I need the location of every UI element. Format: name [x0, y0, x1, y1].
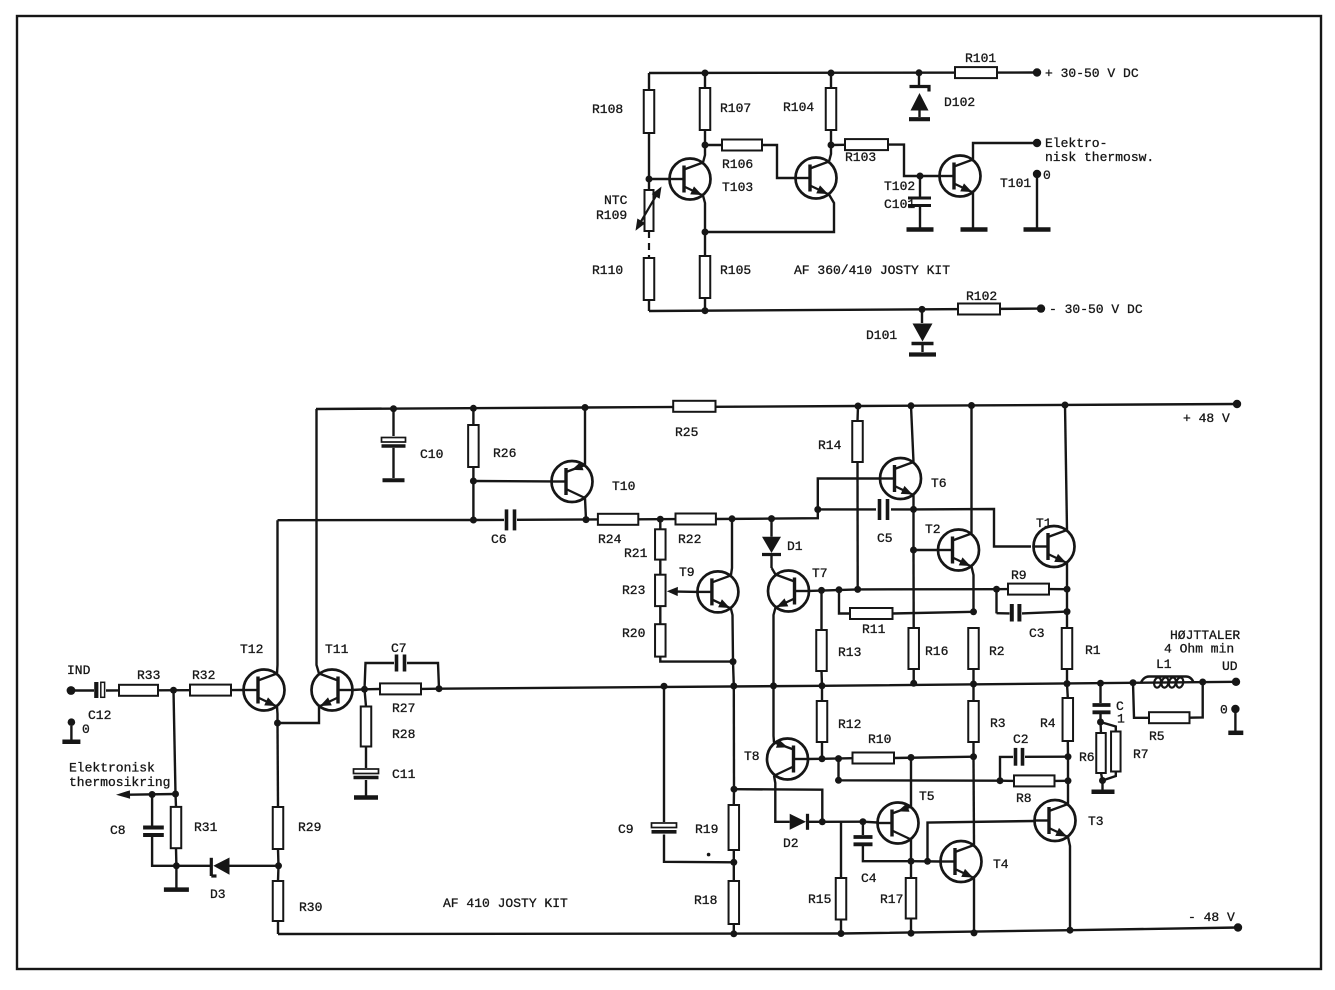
resistor R110: [592, 258, 654, 311]
svg-text:R1: R1: [1085, 643, 1101, 658]
svg-text:UD: UD: [1222, 659, 1238, 674]
resistor R31: [171, 794, 218, 866]
svg-text:R103: R103: [845, 150, 876, 165]
transistor T103: [669, 159, 753, 200]
svg-text:C11: C11: [392, 767, 416, 782]
wire: T9 emitter node to mid line: [732, 662, 735, 686]
wire: T101 collector to thermoswitch terminal: [973, 143, 1037, 160]
svg-text:R7: R7: [1133, 747, 1149, 762]
transistor T2: [925, 522, 979, 571]
svg-text:R28: R28: [392, 727, 415, 742]
svg-text:T102: T102: [884, 179, 915, 194]
svg-text:0: 0: [1043, 168, 1051, 183]
zener diode D102: [910, 73, 976, 117]
wire: driver line to R9: [858, 586, 1000, 593]
svg-text:R32: R32: [192, 668, 215, 683]
resistor R1: [1062, 628, 1101, 684]
transistor T5: [877, 789, 935, 844]
wire: T5 collector down: [910, 840, 912, 862]
resistor R104: [783, 73, 836, 145]
svg-text:R110: R110: [592, 263, 623, 278]
svg-text:AF 410 JOSTY KIT: AF 410 JOSTY KIT: [443, 896, 568, 911]
svg-text:R5: R5: [1149, 729, 1165, 744]
resistor R13: [816, 590, 861, 685]
svg-text:R14: R14: [818, 438, 842, 453]
wire: R29 to D3 node: [277, 849, 280, 866]
wire: T11 collector column: [317, 409, 320, 674]
wire: T9 emitter down: [731, 609, 733, 662]
node: C5 right / T6 emitter / T2 base column: [910, 506, 917, 513]
wire: T2 collector to rail: [970, 406, 972, 534]
svg-text:R3: R3: [990, 716, 1006, 731]
wire: T5 emitter to R10 node: [910, 758, 912, 807]
svg-text:R13: R13: [838, 645, 861, 660]
wire: emitter junction to R29: [276, 723, 279, 807]
node: C4 top / T5 base: [859, 818, 866, 825]
resistor R18: [694, 862, 739, 934]
svg-text:C7: C7: [391, 641, 407, 656]
svg-text:Elektronisk: Elektronisk: [69, 761, 155, 776]
wire: T6 base L: [818, 479, 880, 510]
svg-text:R30: R30: [299, 900, 322, 915]
svg-text:R27: R27: [392, 701, 415, 716]
resistor R8: [1000, 775, 1068, 806]
svg-text:R109: R109: [596, 208, 627, 223]
svg-text:R9: R9: [1011, 568, 1027, 583]
svg-text:Elektro-: Elektro-: [1045, 136, 1107, 151]
svg-text:+ 30-50 V DC: + 30-50 V DC: [1045, 66, 1139, 81]
wire: T102 collector: [829, 145, 831, 162]
svg-text:T2: T2: [925, 522, 941, 537]
resistor R32: [190, 668, 231, 696]
wire: C3 left lead: [997, 612, 1010, 615]
bar under C10: [383, 478, 405, 482]
capacitor C6: [491, 509, 515, 547]
resistor R28: [361, 689, 416, 746]
svg-text:R12: R12: [838, 717, 861, 732]
wire: T12/T11 emitter junction: [274, 707, 319, 727]
svg-text:D101: D101: [866, 328, 897, 343]
resistor R29: [273, 807, 322, 849]
svg-text:T10: T10: [612, 479, 635, 494]
label AF 360/410 JOSTY KIT: [794, 263, 950, 278]
svg-text:C2: C2: [1013, 732, 1029, 747]
svg-text:NTC: NTC: [604, 193, 628, 208]
svg-text:R106: R106: [722, 157, 753, 172]
resistor R101: [955, 51, 997, 78]
terminal -30-50V DC: [1037, 302, 1143, 317]
wire: C12 to R33: [106, 689, 119, 691]
svg-text:T9: T9: [679, 565, 695, 580]
capacitor C8: [110, 795, 176, 866]
wire: emitter coupling T103-T102: [705, 195, 834, 233]
svg-text:D3: D3: [210, 887, 226, 902]
wire: 0 input to ground: [70, 726, 72, 740]
node: R4/C2/R6 label node: [1065, 750, 1095, 765]
diode D2: [783, 814, 822, 851]
wire: output mid line: [439, 679, 1236, 690]
resistor R103: [831, 139, 888, 165]
label AF 410 JOSTY KIT: [443, 896, 568, 911]
wire: T101 emitter: [972, 193, 974, 229]
wire: R4 column C2-R8 segment: [1065, 757, 1072, 785]
wire: T2 base lead: [914, 549, 939, 551]
node: T5/C4/R17/T4 base: [908, 858, 915, 865]
svg-text:R18: R18: [694, 893, 717, 908]
ground under R31: [164, 887, 189, 892]
ground under C101: [907, 227, 934, 232]
svg-text:R15: R15: [808, 892, 831, 907]
wire: T9 base arrow to R23 wiper: [667, 587, 698, 596]
svg-text:thermosikring: thermosikring: [69, 775, 170, 790]
node: T11 base / R27 / R28 / C7: [361, 686, 368, 693]
wire: T6 collector to rail: [911, 406, 914, 462]
resistor R5: [1133, 682, 1203, 744]
node: T103 emitter junction: [702, 229, 709, 236]
svg-text:C5: C5: [877, 531, 893, 546]
terminal 0 output: [1220, 703, 1240, 718]
resistor R106: [705, 140, 762, 173]
wire: T8 emitter to mid line: [772, 686, 775, 743]
wire: R26 node to T10 base: [473, 480, 551, 483]
svg-text:R10: R10: [868, 732, 891, 747]
svg-text:T3: T3: [1088, 814, 1104, 829]
capacitor C2: [1000, 732, 1068, 781]
inductor L1: [1141, 657, 1194, 688]
terminal -48V: [1188, 910, 1242, 932]
resistor R17: [880, 861, 916, 933]
svg-text:4 Ohm min: 4 Ohm min: [1164, 642, 1234, 657]
svg-text:L1: L1: [1156, 657, 1172, 672]
wire: mid line down to R19: [733, 686, 736, 789]
node: T9 emitter / R20: [730, 658, 737, 665]
diode D101: [866, 309, 934, 352]
trimpot R23: [622, 560, 666, 607]
svg-text:D102: D102: [944, 95, 975, 110]
svg-text:T6: T6: [931, 476, 947, 491]
svg-text:R20: R20: [622, 626, 645, 641]
wire: T12 collector line to C6: [278, 517, 505, 524]
capacitor C3: [1012, 604, 1067, 641]
transistor T102: [795, 158, 915, 199]
node: R104/R103/T102 collector: [828, 142, 835, 149]
wire: -48V rail: [278, 927, 1238, 938]
resistor R105: [700, 232, 751, 311]
wire: T103 emitter to coupling line: [703, 196, 705, 233]
svg-text:T8: T8: [744, 749, 760, 764]
svg-text:C3: C3: [1029, 626, 1045, 641]
wire: R106 to T102 base: [762, 145, 796, 178]
svg-text:T7: T7: [812, 566, 828, 581]
resistor R24: [598, 514, 638, 547]
wire: T5 base lead: [863, 821, 878, 824]
node: R31/C8/D3/ground: [173, 862, 180, 869]
label Elektronisk thermosikring: [69, 761, 170, 791]
svg-text:0: 0: [1220, 703, 1228, 718]
resistor R33: [119, 668, 160, 696]
wire: R19 tap to D2 node: [734, 789, 822, 822]
wire: T2 emitter down: [972, 567, 974, 612]
wire: R11 to T2 emitter node: [893, 608, 978, 615]
svg-text:R4: R4: [1040, 716, 1056, 731]
svg-text:R8: R8: [1016, 791, 1032, 806]
svg-text:AF 360/410 JOSTY KIT: AF 360/410 JOSTY KIT: [794, 263, 950, 278]
wire: 0 output to ground: [1234, 713, 1236, 731]
svg-text:C6: C6: [491, 532, 507, 547]
resistor R26: [468, 408, 516, 481]
resistor R108: [592, 73, 654, 179]
ground under 0 terminal: [1024, 227, 1051, 232]
resistor R22: [676, 514, 716, 548]
wire: R10 right to R2 column: [894, 753, 977, 761]
wire: T8 base lead: [807, 758, 822, 761]
node: R29/R30/D3: [275, 862, 282, 869]
wire: R32 node down to R31 column: [174, 690, 176, 794]
ground under C11: [354, 795, 378, 800]
terminal Elektro-nisk thermosw.: [1033, 136, 1154, 165]
svg-text:T101: T101: [1000, 176, 1031, 191]
svg-text:+ 48 V: + 48 V: [1183, 411, 1230, 426]
wire: dashed link R109-R110: [648, 231, 650, 259]
resistor R107: [700, 73, 751, 145]
svg-text:R29: R29: [298, 820, 321, 835]
wire: R33 to R32: [158, 687, 190, 694]
node: R8/C2 left: [997, 777, 1004, 784]
resistor R27: [365, 683, 440, 716]
wire: R22 to D1 node: [716, 515, 772, 522]
svg-text:C10: C10: [420, 447, 443, 462]
svg-text:T12: T12: [240, 642, 263, 657]
svg-text:C8: C8: [110, 823, 126, 838]
svg-text:R25: R25: [675, 425, 698, 440]
wire: T1 base L from C5 node: [914, 509, 1032, 547]
transistor T6: [880, 458, 947, 499]
label HOJTTALER: [1164, 628, 1240, 657]
node: T103 base on left column: [646, 176, 671, 183]
node: R107/R106/T103 collector: [702, 142, 709, 149]
wire: T1 emitter column: [1064, 563, 1071, 628]
svg-text:D2: D2: [783, 836, 799, 851]
terminal UD: [1222, 659, 1240, 686]
wire: T2 base column: [912, 509, 914, 550]
svg-text:C9: C9: [618, 822, 634, 837]
wire: T7 base line: [810, 586, 858, 594]
svg-text:R16: R16: [925, 644, 948, 659]
wire: T8 collector to D2: [774, 776, 790, 822]
svg-text:R17: R17: [880, 892, 903, 907]
svg-text:R2: R2: [989, 644, 1005, 659]
transistor T3: [1034, 800, 1104, 841]
wire: R103 to T101 base: [888, 145, 940, 180]
resistor R4: [1040, 684, 1073, 757]
svg-text:R23: R23: [622, 583, 645, 598]
bar under D102: [909, 117, 930, 121]
node: C1 bottom / R6 R7 top: [1097, 719, 1104, 726]
resistor R16: [908, 550, 948, 683]
wire: T10 emitter to rail: [584, 408, 586, 466]
wire: T8 base node to R10: [822, 755, 853, 762]
resistor R10: [853, 732, 895, 764]
svg-text:C12: C12: [88, 708, 111, 723]
wire: IND to C12: [74, 689, 94, 691]
resistor R6 (parallel pair left): [1096, 722, 1106, 773]
capacitor C7: [365, 641, 440, 689]
transistor T7: [768, 566, 828, 612]
NTC resistor R109: [596, 179, 662, 231]
resistor R19: [695, 789, 739, 862]
resistor R30: [273, 866, 323, 934]
svg-text:R22: R22: [678, 532, 701, 547]
wire: T9 collector to main line: [731, 519, 732, 576]
transistor T10: [551, 461, 635, 502]
wire: R15 riser: [840, 822, 842, 878]
svg-text:R101: R101: [965, 51, 996, 66]
wire: T7 emitter to mid line: [774, 608, 776, 686]
svg-text:R107: R107: [720, 101, 751, 116]
resistor R25: [673, 401, 715, 440]
node: R12 bottom / T8 base: [819, 755, 826, 762]
node: T2 base tap: [910, 547, 917, 554]
resistor R3: [968, 684, 1005, 757]
svg-text:1: 1: [1117, 712, 1125, 727]
wire: T6 emitter to C5 node: [912, 495, 914, 509]
node: R19/R18/C9: [730, 859, 737, 866]
mark: small dot near R19: [707, 853, 711, 857]
wire: R24 to R22: [638, 516, 675, 523]
wire: C6 to R24: [517, 516, 598, 523]
capacitor C12: [88, 682, 111, 723]
terminal +30-50V DC: [1033, 66, 1139, 81]
transistor T11: [312, 642, 354, 711]
svg-text:R19: R19: [695, 822, 718, 837]
capacitor C1: [1093, 683, 1126, 726]
node: D2 cathode / R19 tap / T5 base line: [819, 818, 826, 825]
svg-text:C101: C101: [884, 197, 915, 212]
terminal IND input: [67, 663, 91, 695]
capacitor C5: [818, 499, 914, 546]
diode D3: [176, 858, 278, 903]
node: R27/C7 output side: [436, 685, 443, 692]
wire: +48V rail: [316, 402, 1237, 413]
wire: D3 node to ground: [175, 866, 177, 888]
svg-text:T5: T5: [919, 789, 935, 804]
wire: T12 collector column: [276, 520, 279, 673]
node: R26 bottom / T10 base: [470, 478, 477, 485]
resistor R15: [808, 878, 846, 934]
ground under T101 emitter: [961, 227, 988, 232]
svg-text:C4: C4: [861, 871, 877, 886]
wire: R32 to T12 base: [231, 689, 244, 691]
wire: T4 collector column: [972, 757, 975, 845]
node: R19 top / bias tap: [731, 786, 738, 793]
svg-text:R11: R11: [862, 622, 886, 637]
svg-text:- 48 V: - 48 V: [1188, 910, 1235, 925]
svg-text:T103: T103: [722, 180, 753, 195]
wire: R9 left riser: [995, 589, 997, 613]
resistor R11: [839, 590, 893, 637]
wire: -30-50V bottom supply rail: [649, 306, 1041, 314]
capacitor C101: [884, 176, 931, 228]
wire: T11 base to feedback node: [353, 688, 365, 691]
wire: +30-50V top supply rail: [649, 69, 1037, 76]
ground under R6/R7: [1092, 790, 1115, 795]
ground under input 0: [62, 740, 80, 745]
svg-text:R6: R6: [1079, 750, 1095, 765]
wire: D1 node to C5 riser: [768, 510, 818, 523]
transistor T101: [939, 156, 1031, 197]
diode D1: [762, 519, 803, 568]
svg-text:nisk thermosw.: nisk thermosw.: [1045, 150, 1154, 165]
capacitor C4: [854, 822, 912, 886]
wire: D2 node to C4 node: [822, 821, 863, 823]
svg-text:R21: R21: [624, 546, 648, 561]
svg-text:R105: R105: [720, 263, 751, 278]
svg-text:IND: IND: [67, 663, 91, 678]
node: R14 bottom on driver line: [854, 586, 861, 593]
transistor T8: [744, 739, 809, 780]
capacitor C9: [618, 686, 734, 862]
resistor R21: [624, 519, 666, 561]
wire: R10 left node to R8 line: [835, 759, 1000, 784]
transistor T9: [679, 565, 738, 612]
svg-text:R33: R33: [137, 668, 160, 683]
bar under D101: [909, 352, 936, 356]
ground under 0 output: [1228, 731, 1243, 736]
node: R6/R7 bottom: [1099, 772, 1116, 790]
terminal +48V: [1183, 400, 1241, 426]
wire: T4 base link: [911, 858, 941, 865]
wire: T3 base L: [928, 821, 1035, 861]
resistor R20: [622, 606, 733, 662]
resistor R102: [958, 289, 1000, 315]
wire: R26 node down to C6 line: [472, 481, 474, 520]
svg-text:R104: R104: [783, 100, 814, 115]
resistor R2: [968, 628, 1004, 684]
svg-text:R108: R108: [592, 102, 623, 117]
terminal 0 input: [68, 718, 90, 737]
svg-text:D1: D1: [787, 539, 803, 554]
resistor R9: [997, 568, 1068, 595]
svg-text:R102: R102: [966, 289, 997, 304]
wire: T7 collector to D1: [772, 568, 776, 575]
transistor T4: [940, 841, 1009, 882]
svg-text:0: 0: [82, 722, 90, 737]
wire: T103 collector: [703, 145, 705, 163]
terminal 0 (top circuit): [1033, 168, 1051, 183]
capacitor C11: [354, 747, 416, 796]
capacitor C10: [382, 409, 444, 478]
svg-text:R24: R24: [598, 532, 622, 547]
wire: thermosikring arrow line: [116, 790, 179, 798]
wire: T1 collector to rail: [1065, 405, 1067, 530]
transistor T1: [1033, 516, 1075, 567]
node: C5 left / T6 base riser: [814, 506, 821, 513]
wire: 0 terminal to ground: [1036, 178, 1038, 228]
wire: T3 emitter to rail: [1068, 837, 1070, 930]
svg-text:R31: R31: [194, 820, 218, 835]
wire: T10 collector to C6 line: [585, 498, 586, 520]
resistor R12: [817, 686, 862, 759]
resistor R7 (parallel pair right): [1101, 722, 1149, 772]
resistor R14: [818, 406, 863, 589]
svg-text:T11: T11: [325, 642, 349, 657]
wire: T4 emitter to rail: [973, 878, 975, 933]
svg-text:R26: R26: [493, 446, 516, 461]
svg-text:- 30-50 V DC: - 30-50 V DC: [1049, 302, 1143, 317]
svg-text:T4: T4: [993, 857, 1009, 872]
svg-text:T1: T1: [1036, 516, 1052, 531]
transistor T12: [240, 642, 285, 711]
